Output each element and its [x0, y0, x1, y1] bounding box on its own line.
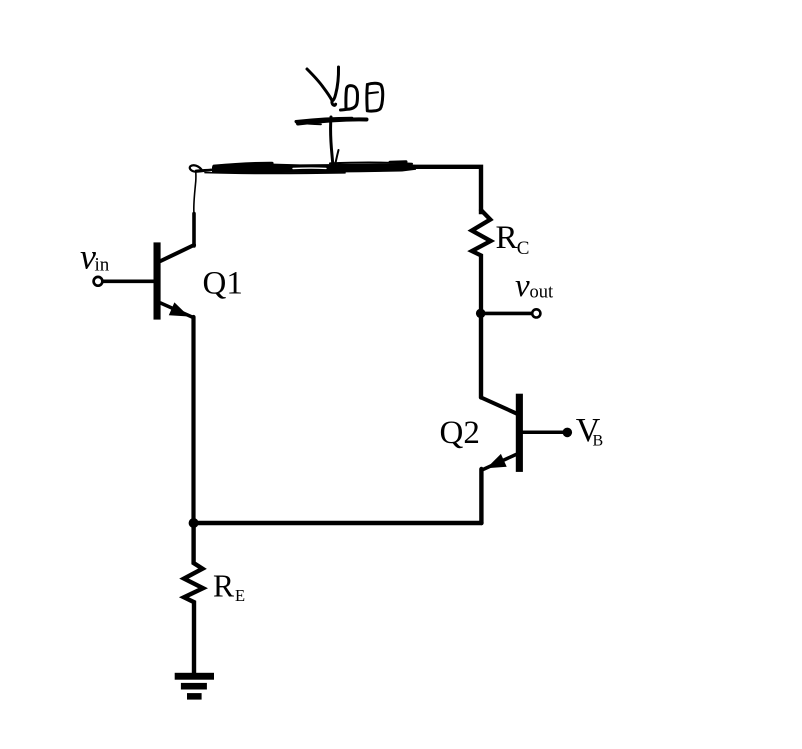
VDD label (hand-drawn D 2) [367, 83, 383, 111]
transistor Q1 collector diagonal [161, 245, 194, 261]
label vin [80, 237, 110, 277]
resistor RC [472, 210, 491, 314]
VDD tick wire [331, 117, 334, 170]
label RE [213, 569, 245, 605]
transistor Q1 emitter diagonal with arrow [161, 303, 194, 318]
top rail clean wire and right corner [413, 167, 481, 212]
junction dot emitter node [189, 518, 199, 528]
wire vout to Q2 collector [479, 313, 483, 397]
svg-text:v: v [515, 268, 530, 304]
VDD label (hand-drawn V) [307, 69, 332, 101]
bottom wire [194, 521, 482, 526]
label Q2 [440, 415, 480, 451]
svg-text:C: C [517, 238, 530, 259]
ground [175, 673, 214, 680]
transistor Q2 collector diagonal [481, 397, 517, 413]
vin open terminal [94, 277, 103, 286]
transistor Q2 base wire [523, 430, 563, 434]
label vout [515, 268, 554, 304]
transistor Q2 base bar [516, 394, 523, 472]
transistor Q1 collector clean vertical [192, 214, 196, 247]
node vout junction dot [476, 309, 486, 319]
transistor Q2 emitter diagonal with arrow [483, 455, 516, 470]
vout open terminal [532, 309, 540, 317]
VDD label (hand-drawn D) [341, 86, 358, 110]
svg-text:in: in [95, 254, 110, 275]
svg-text:out: out [530, 283, 555, 303]
svg-text:Q1: Q1 [203, 266, 243, 302]
wire Q1 emitter down [191, 317, 195, 523]
svg-text:R: R [213, 569, 234, 604]
wire Q2 emitter down [479, 469, 483, 523]
transistor Q1 base bar [154, 242, 161, 319]
wire to vout terminal [481, 312, 532, 316]
resistor RE [184, 523, 203, 673]
label VB [576, 412, 603, 450]
label RC [496, 220, 530, 259]
svg-text:R: R [496, 220, 518, 256]
VDD supply bar [296, 118, 352, 121]
top rail hand-drawn wire [190, 165, 211, 171]
transistor Q1 collector thin wavy wire [194, 172, 196, 214]
svg-text:E: E [235, 586, 245, 605]
svg-text:B: B [593, 433, 604, 450]
transistor Q1 base wire [103, 279, 154, 283]
node VB dot [563, 428, 573, 438]
label Q1 [203, 266, 243, 302]
svg-text:Q2: Q2 [440, 415, 480, 451]
